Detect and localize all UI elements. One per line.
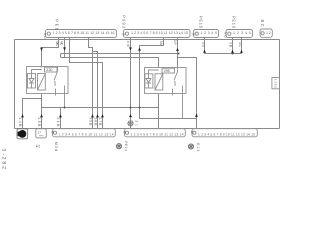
connector strip S2 (124, 30, 191, 38)
svg-text:1353: 1353 (273, 79, 277, 88)
wire coil tap K1 (32, 70, 42, 79)
svg-text:E21: E21 (196, 143, 200, 151)
svg-text:NO: NO (43, 33, 47, 39)
svg-text:230: 230 (46, 68, 52, 72)
svg-text:1 2 3 4 5 6 7 8 9 10 11 12 13: 1 2 3 4 5 6 7 8 9 10 11 12 13 14 (59, 133, 114, 137)
ground G205 (188, 144, 193, 149)
wire H3 then down to strip B1 (61, 58, 159, 129)
arrowhead wire 3M (138, 48, 141, 51)
wire pin163 jog down then H6 (140, 38, 197, 119)
arrowhead wire 36B (96, 114, 99, 117)
arrowhead wire 3C (240, 50, 243, 53)
wire to strip B1 pin1 (60, 108, 62, 129)
svg-text:31: 31 (135, 120, 139, 126)
svg-text:PE16: PE16 (231, 16, 236, 29)
wire H7 then down to strip B3 (178, 58, 197, 129)
wire relay K2 coil bottom to strip B2 (158, 94, 160, 129)
wire bottom rail (15, 128, 280, 130)
relay K1 (27, 67, 69, 108)
svg-text:3P: 3P (173, 40, 177, 46)
junction node H2 (232, 53, 234, 55)
arrowhead wire 35B (91, 114, 94, 117)
switch contact K1 (54, 67, 65, 108)
arrowhead wire 39 (203, 50, 206, 53)
wire branch to connector F1 (23, 99, 42, 130)
junction node Hmid x130 (130, 107, 132, 109)
wire right vertical (279, 40, 281, 129)
wire top rail (15, 39, 280, 41)
arrowhead wire 31 (129, 114, 132, 117)
relay K1 value box (45, 67, 58, 72)
connector strip S3 (194, 30, 219, 38)
svg-text:PE15: PE15 (198, 16, 203, 29)
wire H2 (205, 53, 242, 55)
wire relay K2 coil feed (158, 58, 160, 69)
connector strip S5 (260, 29, 272, 37)
arrowhead wire 45B (40, 114, 43, 117)
arrowhead wire 37B (101, 114, 104, 117)
wire splice to strip B2 (130, 126, 132, 129)
svg-text:35B: 35B (88, 117, 92, 126)
svg-text:296: 296 (164, 69, 170, 73)
wire pin59 jog to relay K1 coil (42, 38, 59, 68)
svg-text:1 2 3 4 5: 1 2 3 4 5 (201, 31, 218, 35)
wire H1 (61, 54, 179, 58)
arrowhead wire 4B (129, 47, 132, 50)
relay K2 value box (162, 68, 175, 73)
arrowhead wire to strip B3 (195, 114, 198, 117)
svg-text:36B: 36B (93, 117, 97, 126)
svg-text:BC: BC (260, 20, 265, 27)
svg-text:1 2 3 4 5 6 7 8 9 10 11 12 13: 1 2 3 4 5 6 7 8 9 10 11 12 13 14 15 (198, 133, 255, 137)
diode D2 enclosure (145, 74, 153, 88)
wire diode cathode K1 (31, 83, 33, 88)
svg-text:PE8: PE8 (54, 19, 59, 31)
wire diode cathode K2 (148, 83, 150, 88)
connector F1 black (17, 129, 28, 139)
arrowhead wire 3P (176, 48, 179, 51)
svg-text:37B: 37B (98, 117, 102, 126)
svg-text:M3d: M3d (54, 142, 58, 152)
svg-text:4B: 4B (126, 41, 130, 48)
ground splice G1 (128, 121, 133, 126)
svg-text:17: 17 (38, 131, 42, 135)
junction node Hmid / K1 pin (64, 107, 66, 109)
wire pin232 drop (232, 38, 234, 54)
wire pin177 drop to relay K2 switch (177, 38, 179, 69)
connector X1 on right vertical (272, 78, 280, 89)
wire coil tap K2 (149, 70, 159, 79)
wire relay K1 coil bottom down to connector F2 (41, 94, 43, 129)
arrowhead wire 31B (59, 114, 62, 117)
coil L1 box (38, 74, 46, 91)
wire pin130 long drop to splice (130, 38, 132, 122)
svg-text:NO: NO (224, 32, 228, 38)
relay K2 outline (145, 68, 187, 94)
wire pin205 drop (204, 38, 206, 54)
junction node H1 / K2 switch (178, 53, 180, 55)
connector strip B1 (53, 129, 116, 137)
svg-text:1 2 3 4 5 6 7 8 9 10 11 12 13: 1 2 3 4 5 6 7 8 9 10 11 12 13 14 (131, 133, 184, 137)
svg-text:1 2 3 4 5: 1 2 3 4 5 (233, 31, 251, 35)
coil L1 diagonal (38, 74, 46, 91)
diode D1 (29, 79, 34, 84)
arrowhead wire 3B (231, 50, 234, 53)
wire pin88 jog drop to strip B1 (89, 38, 98, 129)
svg-text:1 2 3 4 5 6 7 8 9 10 11 12 13: 1 2 3 4 5 6 7 8 9 10 11 12 13 14 15 (131, 31, 188, 35)
wire pin64 drop (64, 38, 66, 58)
wire left vertical (14, 40, 16, 129)
wire pin70 drop + H4 then down to strip B1 (70, 38, 103, 129)
ground G204 (116, 144, 121, 149)
wire pin241 drop (241, 38, 243, 54)
svg-text:P992: P992 (121, 15, 126, 29)
coil L2 diagonal (155, 74, 163, 90)
diode D2 (146, 79, 151, 84)
junction node Hmid x139 (139, 107, 141, 109)
svg-text:1 2: 1 2 (266, 31, 271, 35)
svg-text:31B: 31B (56, 117, 60, 127)
connector strip S1 (46, 30, 117, 38)
arrowhead wire MC (63, 47, 66, 50)
connector F2 (36, 129, 47, 138)
connector strip B3 (192, 129, 257, 137)
svg-text:F2: F2 (36, 144, 40, 148)
relay K2 (145, 68, 187, 119)
svg-text:45B: 45B (37, 117, 41, 127)
svg-text:3-282: 3-282 (1, 148, 7, 169)
connector strip B2 (125, 129, 186, 137)
relay K1 outline (27, 67, 69, 94)
wire H mid (42, 107, 159, 109)
coil L2 box (155, 74, 163, 90)
switch contact K2 (173, 68, 183, 119)
svg-text:PE24: PE24 (124, 141, 128, 151)
connector strip S4 (226, 30, 253, 38)
svg-text:44B: 44B (18, 117, 22, 127)
svg-text:1 2 3 4 5 6 7 8 9 10 11 12 13: 1 2 3 4 5 6 7 8 9 10 11 12 13 14 15 16 (53, 31, 115, 35)
diode D1 enclosure (28, 74, 36, 89)
arrowhead wire MB (40, 48, 43, 51)
arrowhead wire 44B (21, 114, 24, 117)
svg-text:MC: MC (60, 41, 64, 46)
